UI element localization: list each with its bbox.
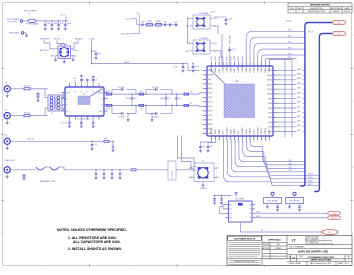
connector J3 SMA CNV [4, 135, 92, 150]
svg-text:DB9: DB9 [297, 97, 300, 99]
svg-text:CLK-: CLK- [208, 106, 213, 108]
svg-text:GND13: GND13 [261, 66, 263, 72]
svg-text:OVDD8: OVDD8 [242, 66, 244, 73]
svg-text:2. INSTALL SHUNTS AS SHOWN.: 2. INSTALL SHUNTS AS SHOWN. [68, 247, 122, 251]
svg-text:DGND4: DGND4 [227, 128, 229, 135]
svg-text:C20: C20 [178, 98, 181, 100]
bus line 1 bold [301, 23, 333, 187]
svg-text:TECHNOLOGY NOTICE TEXT: TECHNOLOGY NOTICE TEXT [234, 261, 255, 263]
resistor R5 series2 top [139, 91, 144, 95]
net label DB9 [297, 97, 300, 99]
svg-text:Fax: (408)434-0507: Fax: (408)434-0507 [305, 242, 319, 244]
resistor R6 series2 bottom [139, 104, 144, 110]
wires lower stubs crossing to bus2 [297, 174, 319, 186]
wire SCK long net [241, 222, 323, 232]
svg-text:CLK SEL: CLK SEL [172, 171, 174, 178]
svg-text:VCC: VCC [126, 19, 131, 21]
svg-text:GND: GND [208, 133, 213, 135]
svg-text:+5V TO 9V: +5V TO 9V [7, 22, 18, 24]
transformer T1 [30, 89, 64, 116]
net label EE_SDA [75, 37, 83, 40]
net label EXT POWER [24, 11, 37, 15]
net label +3.3V osc [210, 11, 216, 13]
net label WP/DGND [40, 38, 50, 40]
capacitor C40 adc bottom [199, 143, 205, 152]
svg-text:1. ALL RESISTORS ARE 0402.: 1. ALL RESISTORS ARE 0402. [68, 236, 117, 240]
net label SDO2 [289, 167, 292, 169]
svg-text:1uF: 1uF [210, 146, 213, 148]
capacitor C1 [44, 21, 51, 30]
wire to oscillator enable 1 [178, 136, 197, 167]
switch S1 ELECTROSWITCH [264, 192, 282, 211]
svg-text:CUSTOMER NOTICE: CUSTOMER NOTICE [234, 238, 256, 240]
connector pad E10 [328, 212, 341, 216]
svg-text:INM: INM [208, 84, 212, 86]
svg-text:GND: GND [208, 88, 213, 90]
svg-text:1uF: 1uF [202, 146, 205, 148]
svg-text:VDD5: VDD5 [230, 129, 232, 134]
svg-text:100MHZ: 100MHZ [200, 188, 206, 190]
svg-text:OVDD3: OVDD3 [223, 66, 225, 73]
svg-text:C17: C17 [168, 98, 171, 100]
svg-text:BANDPASS FILTER: BANDPASS FILTER [40, 180, 56, 183]
net label SDO1 [289, 163, 292, 165]
svg-text:PD5: PD5 [288, 57, 291, 59]
capacitor C20 ref [173, 64, 199, 73]
capacitor C10 series [141, 21, 145, 26]
svg-text:PD0-8: PD0-8 [286, 21, 291, 23]
svg-text:Y1: Y1 [249, 209, 251, 211]
svg-text:PCB DES: PCB DES [263, 244, 270, 246]
oscillator Y3 module [176, 161, 220, 187]
oscillator Y2 [186, 38, 218, 54]
svg-text:VDD: VDD [208, 93, 213, 95]
amp left pins [61, 92, 69, 113]
svg-text:GND: GND [208, 97, 213, 99]
ferrite bead L2 [156, 21, 162, 26]
net label +5V [136, 13, 140, 25]
resistor R20 [92, 138, 115, 152]
net label CLK_IN vertical [168, 161, 176, 180]
svg-text:R5: R5 [140, 91, 142, 93]
net label DB3 [297, 125, 300, 127]
svg-text:Y3: Y3 [202, 161, 204, 163]
svg-text:C16 33pF: C16 33pF [152, 117, 159, 119]
svg-text:LTC2380IUFD-TC6417CUDC: LTC2380IUFD-TC6417CUDC [308, 256, 335, 259]
svg-text:+OUT: +OUT [99, 92, 103, 94]
svg-text:DATE: DATE [345, 7, 350, 10]
svg-text:PD1: PD1 [288, 36, 291, 38]
filter loop 1 [112, 87, 136, 119]
svg-text:SDO7: SDO7 [308, 184, 313, 186]
svg-text:REVISION HISTORY: REVISION HISTORY [310, 5, 330, 7]
net label +5V amp [73, 78, 77, 83]
net label DB4 [297, 121, 300, 123]
svg-text:R4 10: R4 10 [106, 108, 110, 110]
svg-text:1uF: 1uF [164, 21, 167, 23]
capacitor C50 u5 bypass [213, 193, 237, 205]
wires ADC right pins to bus stubs [277, 70, 296, 131]
amp top pins [69, 83, 101, 92]
svg-text:DB12: DB12 [267, 84, 272, 86]
ADC top pins [211, 62, 271, 73]
svg-text:SDO4: SDO4 [308, 174, 313, 176]
wire wrap vertical 1 [284, 60, 286, 138]
svg-text:N.A.: N.A. [277, 243, 281, 246]
svg-text:OVDD11: OVDD11 [253, 65, 255, 72]
resistor R3 series top [106, 91, 112, 95]
wire u5 inputs [220, 205, 226, 214]
svg-text:0.1uF: 0.1uF [174, 21, 178, 23]
svg-text:DV7: DV7 [238, 131, 240, 135]
svg-text:V+: V+ [99, 90, 101, 92]
svg-text:1: 1 [299, 11, 300, 13]
svg-text:DGND8: DGND8 [242, 128, 244, 135]
capacitor C16 osc bypass [214, 17, 233, 25]
svg-text:DV11: DV11 [253, 130, 255, 135]
svg-text:BLM18: BLM18 [156, 21, 161, 23]
svg-text:IC NO.: IC NO. [299, 256, 304, 258]
resistor R7 series3 top [184, 93, 189, 95]
capacitor C22 [80, 75, 83, 84]
wire OUT- rail [104, 105, 203, 106]
svg-text:WP/DGND: WP/DGND [40, 38, 50, 40]
capacitor C24 amp bottom [68, 120, 71, 128]
svg-text:GND: GND [208, 124, 213, 126]
svg-text:NC7SV86: NC7SV86 [236, 199, 244, 201]
net label IN- [190, 103, 193, 105]
net label TOPF2 [288, 42, 291, 44]
net label SDO3 [289, 170, 292, 172]
svg-text:OUT: OUT [216, 177, 220, 179]
svg-text:EXT POWER: EXT POWER [24, 11, 37, 13]
svg-text:JOHN S.: JOHN S. [332, 11, 340, 13]
wires top fan to bus1 [297, 31, 305, 55]
svg-text:GND9: GND9 [246, 67, 248, 72]
net label bus1 top [286, 21, 291, 23]
svg-text:DB6: DB6 [268, 113, 272, 115]
wire wrap vertical 2 [291, 60, 293, 138]
svg-text:PD3: PD3 [288, 47, 291, 49]
svg-text:V+: V+ [101, 99, 103, 101]
connector pad J5-2 [333, 32, 346, 36]
capacitor C11 series [164, 21, 167, 26]
bus line 2 bold [314, 34, 332, 192]
svg-text:VDD: VDD [208, 115, 213, 117]
svg-text:VDD1: VDD1 [215, 129, 217, 134]
svg-text:33: 33 [261, 230, 263, 232]
net label CNV_IN [27, 139, 34, 141]
capacitor C17 mid2 [160, 94, 170, 105]
svg-text:DB6: DB6 [297, 111, 300, 113]
svg-text:DB13: DB13 [297, 78, 301, 80]
capacitor C14 mid1 [126, 94, 136, 105]
wire filter rail [137, 24, 178, 26]
svg-text:REV: REV [347, 256, 350, 258]
svg-text:ECO: ECO [290, 8, 294, 10]
capacitor C23b [82, 79, 89, 83]
capacitor C2 [50, 21, 58, 30]
svg-text:ALL CAPACITORS ARE 0402.: ALL CAPACITORS ARE 0402. [73, 240, 121, 244]
svg-text:C8: C8 [95, 79, 97, 81]
ADC U1 LTC2380CUK QFP-48 [207, 66, 273, 136]
svg-text:DESCRIPTION: DESCRIPTION [310, 8, 323, 10]
wires bottom group to bus stubs [263, 147, 297, 186]
net label IN+ [190, 91, 193, 93]
svg-text:4.7uF: 4.7uF [141, 21, 145, 23]
connector J1 SMA IN+ [4, 83, 24, 98]
svg-text:DB10: DB10 [297, 92, 301, 94]
capacitor C41 adc bottom [207, 143, 213, 152]
svg-text:VDD9: VDD9 [246, 129, 248, 134]
svg-text:EEDATA: EEDATA [75, 37, 83, 40]
svg-text:ANYTECH: ANYTECH [40, 49, 49, 52]
svg-text:FUSE 500MA: FUSE 500MA [27, 23, 39, 26]
svg-text:VDD13: VDD13 [261, 128, 263, 134]
svg-text:VREF: VREF [124, 62, 130, 64]
svg-text:JP1: JP1 [289, 163, 292, 165]
gnd stub loop1 [127, 114, 130, 122]
connector pad J5 [333, 21, 346, 25]
svg-text:SDO6: SDO6 [308, 181, 313, 183]
svg-text:C12 33pF: C12 33pF [118, 87, 125, 89]
net label TOPF4 [288, 53, 291, 55]
svg-text:1800p: 1800p [160, 98, 164, 100]
svg-text:+3.3V: +3.3V [210, 11, 216, 13]
svg-text:OVDD4: OVDD4 [227, 66, 229, 73]
svg-text:JP0: JP0 [289, 160, 292, 162]
ADC left pins [201, 69, 214, 135]
svg-text:V+: V+ [75, 90, 77, 92]
net label 5V_CAP [89, 38, 96, 41]
svg-text:Y2 100MHZ: Y2 100MHZ [199, 38, 209, 40]
net label DB8 [297, 102, 300, 104]
IC U5 NC7SV86 xor [226, 199, 256, 222]
svg-text:LT: LT [292, 239, 296, 243]
svg-text:GND2: GND2 [219, 129, 221, 134]
svg-text:GND: GND [51, 55, 56, 57]
wire CNV out to pad [255, 212, 328, 214]
fuse F1 500mA [27, 19, 69, 26]
svg-text:V+: V+ [93, 90, 95, 92]
svg-text:DB4: DB4 [297, 121, 300, 123]
revision history table [288, 3, 352, 13]
svg-text:GND10: GND10 [250, 128, 252, 134]
svg-text:CNV: CNV [332, 213, 337, 215]
net label DB12 [297, 83, 301, 85]
resistor R2 49.9 [24, 113, 48, 117]
svg-text:C45: C45 [94, 144, 97, 146]
resistor R8 series3 bottom [184, 104, 189, 106]
EEPROM U4 24LC025 [40, 40, 78, 63]
svg-text:IN+: IN+ [190, 91, 193, 93]
svg-text:DEMO CIRCUIT 888A: DEMO CIRCUIT 888A [311, 258, 332, 261]
svg-text:SDO5: SDO5 [308, 177, 313, 179]
net label bus2 top [308, 32, 313, 34]
capacitor C20a adc input [175, 94, 181, 105]
svg-text:Y3: Y3 [249, 218, 251, 220]
svg-text:PWR GND: PWR GND [9, 33, 19, 35]
svg-text:JOHN S.: JOHN S. [275, 248, 282, 250]
capacitor C23 [92, 76, 97, 84]
wire BUSY out to pad [255, 216, 328, 218]
crystal filter XF1 [35, 167, 92, 183]
net label OSC_OUT [200, 188, 206, 190]
svg-text:ELECTROSW: ELECTROSW [267, 201, 278, 203]
wires lower stubs into bus1 [297, 162, 305, 172]
capacitor C11c series [174, 21, 178, 26]
svg-text:16-BIT, ADC BUFFER + ADC: 16-BIT, ADC BUFFER + ADC [298, 251, 329, 254]
wires ADC top fanout to bus [246, 31, 296, 62]
capacitor C21 ref2 [192, 64, 199, 73]
svg-text:SIZE: SIZE [289, 256, 292, 258]
svg-text:C17: C17 [231, 49, 234, 51]
svg-text:C13 33pF: C13 33pF [118, 117, 125, 119]
svg-text:DB15: DB15 [297, 69, 301, 71]
svg-text:LTC6417CUDC: LTC6417CUDC [77, 119, 91, 121]
svg-text:SEE PRODUCTION: SEE PRODUCTION [308, 11, 326, 13]
capacitor C9 1uF [92, 51, 102, 59]
svg-text:C15 33pF: C15 33pF [152, 87, 159, 89]
net label DB5 [297, 116, 300, 118]
capacitor C11b series [170, 24, 171, 27]
svg-text:DB9: DB9 [268, 98, 272, 100]
svg-text:DB11: DB11 [267, 89, 272, 91]
svg-text:DB7: DB7 [297, 106, 300, 108]
capacitor C17 [228, 46, 234, 66]
wire osc1 out [213, 26, 218, 34]
svg-text:R6: R6 [140, 108, 142, 110]
net label SDO0 [289, 160, 292, 162]
resistor R1 49.9 [24, 86, 48, 90]
wire OUT+ rail [104, 93, 203, 94]
net label TOPF5 [288, 57, 291, 59]
svg-text:DB3: DB3 [268, 127, 272, 129]
net label DB6 [297, 111, 300, 113]
wires ADC bottom pins fan down-right [224, 140, 272, 182]
net label DB14 [297, 74, 301, 76]
svg-text:PD0-8: PD0-8 [308, 32, 313, 34]
svg-text:BLM18: BLM18 [147, 21, 152, 23]
turret E1 EXT POWER +5V TO 9V [7, 19, 27, 24]
svg-text:TNL_GND: TNL_GND [121, 34, 130, 36]
net label DB15 [297, 69, 301, 71]
capacitor C25 amp bottom [80, 120, 83, 128]
svg-text:DB8: DB8 [297, 102, 300, 104]
svg-text:C7: C7 [82, 79, 84, 81]
svg-text:Y0: Y0 [249, 204, 251, 206]
wire cnv to adc [221, 34, 223, 66]
oscillator Y1 [186, 13, 218, 29]
svg-text:SHEET 1 OF 2: SHEET 1 OF 2 [338, 263, 349, 265]
capacitor C3 [57, 21, 64, 30]
svg-text:APPROVED: APPROVED [331, 7, 342, 10]
amp bottom pins [70, 116, 100, 120]
svg-text:DB2: DB2 [219, 69, 221, 73]
svg-text:05-9-13: 05-9-13 [344, 11, 350, 13]
svg-text:Y2: Y2 [249, 213, 251, 215]
svg-text:T1: T1 [51, 112, 53, 114]
svg-text:CNV_IN: CNV_IN [27, 139, 34, 141]
svg-text:5_CAP: 5_CAP [89, 38, 96, 41]
svg-text:DB2: DB2 [268, 131, 272, 133]
svg-text:OVDD12: OVDD12 [257, 65, 259, 73]
gnd stub loop2 [151, 114, 154, 122]
svg-text:R1 49.9: R1 49.9 [24, 86, 30, 88]
svg-text:R20: R20 [104, 138, 107, 140]
svg-text:DB4: DB4 [268, 122, 272, 124]
svg-text:Y1 100MHZ: Y1 100MHZ [199, 13, 209, 15]
svg-text:NOTES: UNLESS OTHERWISE SPECIF: NOTES: UNLESS OTHERWISE SPECIFIED. [57, 228, 127, 232]
ADC right pins [267, 69, 280, 133]
svg-text:JP2: JP2 [289, 167, 292, 169]
svg-text:DB10: DB10 [250, 68, 252, 73]
connector pad E11 [328, 216, 341, 220]
capacitor C45 [91, 141, 98, 150]
svg-text:DB2: DB2 [297, 130, 300, 132]
net label DB7 [297, 106, 300, 108]
svg-text:DV3: DV3 [223, 131, 225, 135]
svg-text:V+: V+ [81, 90, 83, 92]
svg-text:DB8: DB8 [268, 103, 272, 105]
wire to oscillator enable 2 [182, 136, 197, 171]
wire adc pins to caps [201, 140, 216, 143]
title block [227, 236, 352, 266]
wire +5V rail vertical [92, 40, 181, 63]
net label AMP_OUT [60, 123, 67, 125]
connector J2 SMA IN- [4, 110, 24, 125]
svg-text:DB14: DB14 [267, 75, 272, 77]
amplifier U2 LTC6417 QFN [65, 87, 104, 121]
resistor R21 xtal [23, 175, 25, 179]
svg-text:ELECTROSW: ELECTROSW [289, 201, 300, 203]
svg-text:GND6: GND6 [234, 129, 236, 134]
svg-text:DGND12: DGND12 [257, 127, 259, 135]
capacitor C4 [64, 21, 72, 30]
switch S2 ELECTROSWITCH [286, 192, 304, 211]
svg-text:APPROVALS: APPROVALS [268, 239, 281, 242]
svg-text:DB11: DB11 [297, 88, 301, 90]
ADC top pin net labels [211, 55, 244, 60]
net label VREF [124, 62, 130, 64]
wires right stubs into bus1 [303, 70, 305, 131]
wires bottom fan right segment [0, 0, 1, 1]
svg-text:BUSY: BUSY [331, 218, 337, 220]
svg-text:DB14: DB14 [297, 74, 301, 76]
svg-text:-OUT: -OUT [99, 111, 103, 113]
svg-text:R2 49.9: R2 49.9 [24, 113, 30, 115]
filter loop 2 [146, 87, 172, 119]
svg-text:PD4: PD4 [288, 53, 291, 55]
notes text [57, 228, 127, 251]
svg-text:DB13: DB13 [267, 80, 272, 82]
svg-text:CNV_BLK: CNV_BLK [230, 35, 232, 44]
svg-text:GND1: GND1 [215, 67, 217, 72]
net label TOPF0 [288, 30, 291, 32]
amp right pins [99, 92, 108, 113]
svg-text:JP3: JP3 [289, 170, 292, 172]
ADC bottom pins [211, 127, 271, 144]
svg-text:XTAL CLKIN: XTAL CLKIN [5, 159, 16, 162]
svg-text:DB5: DB5 [268, 117, 272, 119]
net label DB11 [297, 88, 301, 90]
svg-text:V_OCM: V_OCM [60, 123, 67, 125]
net label TOPF3 [288, 47, 291, 49]
net label DB13 [297, 78, 301, 80]
net label TOPF1 [288, 36, 291, 38]
svg-text:GND14: GND14 [265, 128, 267, 134]
net label CNV vertical [230, 35, 232, 44]
